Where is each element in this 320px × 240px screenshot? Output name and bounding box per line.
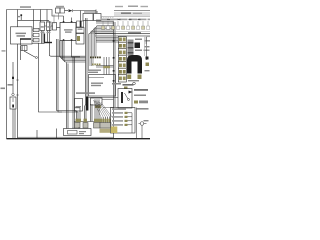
wire diode to junction <box>73 10 96 12</box>
right connector ladder <box>118 37 126 83</box>
ignition switch small box A <box>56 8 61 13</box>
label B+ <box>18 16 20 17</box>
bottom right label box <box>111 108 136 134</box>
wire from relay pair down <box>53 15 55 24</box>
relay small box B <box>60 8 65 13</box>
small fuses row mid-left <box>40 22 45 31</box>
central vertical bundle x85.5-96 <box>85 18 87 106</box>
ticks above legend <box>72 127 74 129</box>
fuse cell column right of box <box>33 28 39 42</box>
label fuse block text <box>16 33 27 35</box>
strip top lines <box>114 10 150 12</box>
junction box column x76-84 <box>80 11 82 22</box>
wire x38.5 long drop <box>39 43 63 112</box>
heavy junction L <box>44 34 46 43</box>
main relay box <box>60 23 76 41</box>
right edge column bits <box>146 37 148 60</box>
ground bus bottom <box>7 138 151 140</box>
fusible link box <box>10 97 16 109</box>
label above fan <box>76 92 95 94</box>
wire pair mid drop <box>66 63 68 129</box>
label relay text <box>64 29 73 30</box>
collector line above connectors <box>74 121 95 123</box>
label above pair <box>84 11 98 12</box>
sensor small box <box>91 98 103 105</box>
wire pair below <box>12 109 14 139</box>
label 30A <box>8 84 13 86</box>
pin ticks top <box>63 16 65 23</box>
label far top right <box>115 6 123 7</box>
labels above arch <box>128 32 141 34</box>
tick marks on border wire <box>16 79 18 81</box>
pins box to cells <box>32 29 33 31</box>
top right connector strip <box>101 16 150 18</box>
labels below fuses <box>41 32 45 33</box>
wire B+ feed long horizontal then down <box>18 20 50 43</box>
wire comb drops <box>41 31 43 44</box>
wire bundle corner left to center: staggered wires <box>60 41 86 58</box>
strip under-box line <box>101 30 150 32</box>
olive feet under arch <box>127 75 131 80</box>
rows to right column <box>96 65 114 67</box>
wire pair x84.5 86 drop <box>84 106 86 123</box>
verticals x95-99 <box>94 99 96 122</box>
node B+ junction dot <box>20 14 22 16</box>
labels right of solenoid <box>134 89 148 91</box>
collector wire in label box <box>128 113 133 133</box>
connector block left <box>21 46 27 51</box>
strip lower lines <box>95 33 150 35</box>
label under arch <box>128 80 139 81</box>
wire inner left vertical <box>17 10 19 27</box>
corner bundle bottom left of center <box>75 108 81 122</box>
fan verticals to connector <box>100 117 102 123</box>
capacitor dark bar <box>86 97 88 111</box>
labels on fuses <box>41 26 44 27</box>
tick dots on pair <box>113 40 115 82</box>
wire drop to fuse cell column <box>32 10 34 29</box>
wire single corner at 50.5 <box>49 43 85 56</box>
label rows with olive terminals <box>112 108 128 126</box>
wire pair x73 74.5 drop <box>72 57 74 129</box>
bundle corner top center: wires turning down <box>89 26 115 71</box>
connector blocks gray bottom row <box>75 123 112 129</box>
texts right mid <box>112 83 121 85</box>
legend text <box>79 131 86 132</box>
diagonal fan wires <box>94 100 102 117</box>
wire pair x56.5 x58 long drop <box>57 39 77 111</box>
label ECU text <box>91 83 103 84</box>
dark arch connector <box>127 55 142 74</box>
wire drops from top bus <box>40 10 42 23</box>
corner top far right <box>146 37 150 44</box>
top right horizontal rows <box>96 19 114 21</box>
connector olive bits <box>77 36 80 41</box>
label top right dark <box>121 12 131 13</box>
strip pin ticks <box>103 21 148 26</box>
connector terminals olive <box>76 119 111 123</box>
connector circle <box>12 93 14 95</box>
connector tick rows center <box>90 57 101 66</box>
tan strip under right connector <box>100 129 111 133</box>
switch lever <box>24 51 35 57</box>
wire bottom second bus <box>18 136 114 138</box>
relay boxes top right pair <box>83 14 93 21</box>
wire left lower vertical <box>20 46 22 60</box>
horn symbol <box>137 108 149 110</box>
wire top feed to relays <box>65 10 69 12</box>
ground stub wires <box>36 130 38 139</box>
label harness text <box>88 70 101 71</box>
wire left outer vertical <box>6 10 8 139</box>
bundle drops below ECU <box>90 104 92 122</box>
pin ticks bottom <box>62 41 64 45</box>
strip label row <box>101 19 151 21</box>
strip terminal boxes <box>102 26 150 29</box>
wires to ECU top right <box>103 57 105 75</box>
bus bar heavy inside box <box>20 38 31 40</box>
solenoid box right <box>118 89 132 109</box>
yellow connector block <box>111 127 118 134</box>
rows mid right going to connectors <box>96 37 118 39</box>
ECU box <box>89 75 116 97</box>
relay dark small box <box>135 43 141 49</box>
label top left title <box>20 6 31 8</box>
relay box lower left center <box>75 99 83 112</box>
left battery column <box>12 62 14 76</box>
fuse block box <box>11 27 33 44</box>
right main vertical pair <box>113 22 115 139</box>
label above relays <box>56 6 64 8</box>
legend box bottom <box>64 129 92 136</box>
wire top horizontal bus <box>7 10 64 17</box>
wires linking fuses <box>45 25 47 27</box>
label left margin <box>1 88 6 90</box>
wire box bottom collector <box>32 43 45 45</box>
diode CR1 <box>69 9 73 12</box>
label wire gauge left <box>2 50 6 51</box>
gray connector stack <box>128 40 134 57</box>
